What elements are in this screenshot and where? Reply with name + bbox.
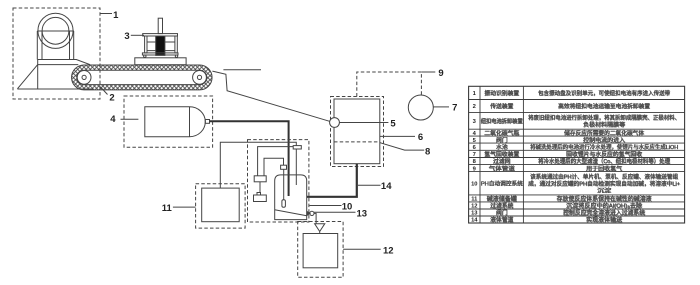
CO2 cylinder tank	[145, 107, 206, 137]
label 7	[433, 103, 457, 114]
alkali feed rod	[295, 149, 297, 185]
table component names	[481, 89, 523, 224]
svg-text:实现液体输送: 实现液体输送	[586, 216, 622, 224]
svg-text:10: 10	[471, 181, 477, 187]
svg-text:5: 5	[390, 118, 396, 129]
svg-text:阀门: 阀门	[496, 136, 508, 144]
svg-text:高效将纽扣电池运输至电池拆卸装置: 高效将纽扣电池运输至电池拆卸装置	[558, 102, 650, 110]
svg-text:PH自动调控系统: PH自动调控系统	[481, 179, 523, 187]
conveyor right pulley	[193, 71, 207, 85]
svg-text:将废旧纽扣电池进行拆卸处理，将其拆卸成隔膜壳、正极材料、: 将废旧纽扣电池进行拆卸处理，将其拆卸成隔膜壳、正极材料、	[528, 114, 680, 122]
svg-text:11: 11	[471, 197, 478, 203]
label 6	[380, 132, 423, 143]
table descriptions	[528, 89, 681, 224]
water pipe 14	[307, 164, 357, 197]
conveyor belt 2	[72, 65, 213, 90]
svg-text:阀门: 阀门	[496, 209, 508, 217]
svg-text:3: 3	[124, 31, 129, 42]
reactor vessel	[275, 175, 307, 220]
filter tank inner box	[303, 234, 338, 268]
feeder dashed enclosure 1	[13, 8, 100, 99]
svg-text:9: 9	[438, 68, 443, 79]
CO2 pipe	[210, 121, 289, 196]
svg-text:11: 11	[162, 203, 173, 214]
svg-text:包含振动盘及识别单元，可使纽扣电池有序进入传送带: 包含振动盘及识别单元，可使纽扣电池有序进入传送带	[538, 89, 670, 97]
svg-text:3: 3	[473, 119, 477, 125]
chute from conveyor	[212, 70, 329, 122]
svg-text:6: 6	[418, 132, 423, 143]
label 14	[358, 181, 392, 192]
filter tank dashed box 12	[298, 222, 343, 278]
svg-text:碱液储备罐: 碱液储备罐	[487, 195, 517, 203]
label 13	[314, 208, 367, 219]
svg-text:传送装置: 传送装置	[490, 102, 513, 110]
pH system dashed enclosure 10	[248, 140, 309, 222]
svg-text:水池: 水池	[496, 143, 508, 151]
svg-text:7: 7	[452, 103, 457, 114]
label 11	[162, 203, 196, 214]
svg-text:控制电流的进入: 控制电流的进入	[583, 136, 625, 144]
label 8	[380, 143, 431, 158]
disassembly unit inner box 6	[334, 99, 380, 164]
svg-text:二氧化碳气瓶: 二氧化碳气瓶	[484, 129, 519, 137]
svg-text:该系统通过由PH计、单片机、泵机、反应罐、液体输送管组: 该系统通过由PH计、单片机、泵机、反应罐、液体输送管组	[530, 173, 678, 181]
cylinder nozzle	[205, 120, 209, 124]
svg-text:气体管道: 气体管道	[489, 164, 515, 172]
svg-text:氢气回收装置: 氢气回收装置	[484, 150, 519, 158]
svg-text:回收锂片与水反应的氢气回收: 回收锂片与水反应的氢气回收	[566, 150, 642, 158]
alkali tank inner box	[202, 188, 240, 222]
svg-text:13: 13	[471, 211, 478, 217]
H2 recovery circle 7	[408, 95, 433, 120]
svg-text:12: 12	[383, 245, 394, 256]
valve 13	[307, 211, 316, 223]
alkali feed fitting	[293, 146, 301, 149]
svg-text:将冷水处理后的大型滤渣（Co、纽扣电极材料等）处理: 将冷水处理后的大型滤渣（Co、纽扣电极材料等）处理	[538, 157, 670, 165]
alkali tank dashed box 11	[196, 184, 246, 228]
feeder drum	[37, 13, 74, 59]
svg-text:将碱洗处理后的电池进行冷水处理，使锂片与水反应生成LiOH: 将碱洗处理后的电池进行冷水处理，使锂片与水反应生成LiOH	[530, 143, 678, 151]
svg-text:用于回收氢气: 用于回收氢气	[586, 164, 622, 172]
pump link line	[258, 147, 294, 176]
label 2	[101, 87, 115, 104]
label 9	[421, 68, 443, 79]
svg-text:液体管道: 液体管道	[490, 216, 513, 224]
svg-text:振动识别装置: 振动识别装置	[484, 89, 519, 97]
svg-text:成，通过对反应罐的PH自动检测实现自动加碱，将溶液中Li+: 成，通过对反应罐的PH自动检测实现自动加碱，将溶液中Li+	[528, 180, 681, 188]
svg-text:7: 7	[473, 152, 476, 158]
feeder base wedge	[17, 60, 93, 90]
svg-text:1: 1	[113, 10, 119, 21]
svg-text:存放使反应体系保持在碱性的碱溶液: 存放使反应体系保持在碱性的碱溶液	[557, 195, 652, 203]
gas pipe 9 dashed	[357, 72, 422, 97]
funnel	[315, 224, 325, 234]
svg-text:8: 8	[425, 146, 430, 157]
parts table	[469, 86, 685, 223]
label 12	[343, 245, 393, 256]
svg-text:4: 4	[110, 114, 116, 125]
conveyor left pulley	[77, 71, 91, 85]
CO2 cylinder dashed enclosure 4	[124, 96, 213, 147]
svg-text:2: 2	[473, 104, 476, 110]
alkali feed line from tank 11	[220, 142, 296, 188]
svg-text:14: 14	[471, 218, 478, 224]
label 3	[124, 31, 144, 42]
inlet port circle 5	[330, 118, 340, 128]
table row numbers	[471, 91, 478, 224]
svg-text:1: 1	[473, 91, 477, 97]
probe rod A with fitting	[281, 165, 287, 207]
svg-text:13: 13	[357, 208, 368, 219]
svg-text:10: 10	[342, 201, 353, 212]
svg-text:沉淀将反应中的Al(OH)₃去除: 沉淀将反应中的Al(OH)₃去除	[566, 202, 642, 210]
label 1	[100, 10, 119, 21]
svg-text:纽扣电池拆卸装置: 纽扣电池拆卸装置	[481, 117, 523, 125]
svg-text:储存反应所需要的二氧化碳气体: 储存反应所需要的二氧化碳气体	[564, 129, 644, 137]
svg-text:2: 2	[109, 93, 114, 104]
label 10	[310, 201, 353, 212]
pH meter	[254, 176, 266, 182]
svg-text:沉淀: 沉淀	[597, 186, 611, 194]
svg-text:12: 12	[471, 204, 477, 210]
svg-text:控制反应完全溶液进入过滤系统: 控制反应完全溶液进入过滤系统	[563, 209, 645, 217]
separator dashed line 8	[334, 141, 380, 143]
label 5	[339, 118, 396, 129]
svg-text:过滤网: 过滤网	[493, 157, 511, 165]
svg-text:过滤系统: 过滤系统	[490, 202, 513, 210]
crusher 3	[135, 18, 186, 64]
disassembly unit dashed box	[331, 97, 384, 167]
controller pump	[254, 182, 267, 202]
svg-text:14: 14	[381, 181, 392, 192]
pH meter to probe link	[264, 158, 284, 176]
svg-text:负极材料隔膜等: 负极材料隔膜等	[583, 121, 625, 129]
feeder platform	[38, 60, 90, 65]
label 4	[110, 114, 138, 125]
